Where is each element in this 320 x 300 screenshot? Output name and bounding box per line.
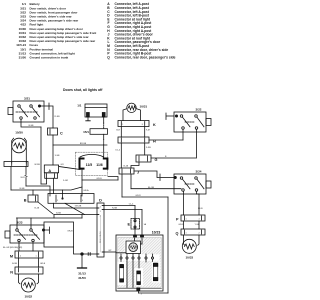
svg-text:3: 3 xyxy=(57,200,58,202)
connector G xyxy=(136,155,158,162)
in-line connector row (left B-post) xyxy=(48,194,94,204)
wire H to connector J (left leg) xyxy=(115,143,121,168)
svg-text:Doors shut, all lights off: Doors shut, all lights off xyxy=(63,88,103,92)
wire battery bus to fuse box xyxy=(53,143,107,157)
svg-text:1: 1 xyxy=(186,233,187,235)
svg-text:3/21: 3/21 xyxy=(24,97,30,101)
wire H to G xyxy=(145,143,152,155)
svg-text:M: M xyxy=(10,255,13,259)
connector E at roof light xyxy=(127,219,146,230)
svg-text:R-SB: R-SB xyxy=(112,208,118,210)
wire 3/22 right output down to G xyxy=(196,129,198,158)
svg-text:GR-B: GR-B xyxy=(178,224,184,226)
svg-text:9-SB: 9-SB xyxy=(146,147,151,149)
wire 3/21 output to terminal tick xyxy=(41,103,61,128)
svg-text:31/50: 31/50 xyxy=(78,276,86,280)
svg-text:D: D xyxy=(99,199,102,203)
connector B xyxy=(24,190,38,203)
svg-text:10/31: 10/31 xyxy=(140,105,148,109)
svg-text:BL/B: BL/B xyxy=(198,208,203,210)
wire 3/24 outputs to connector P xyxy=(184,191,204,215)
svg-text:GR-B: GR-B xyxy=(67,231,73,233)
svg-text:GR-B: GR-B xyxy=(40,263,46,265)
lamp 10/33 xyxy=(182,235,199,260)
svg-text:3/22: 3/22 xyxy=(196,108,202,112)
svg-text:4: 4 xyxy=(82,200,83,202)
svg-text:C: C xyxy=(60,132,63,136)
svg-text:GR-R: GR-R xyxy=(135,195,141,197)
wires M to N xyxy=(12,258,46,267)
svg-text:B-R: B-R xyxy=(116,130,120,132)
svg-text:W-SB: W-SB xyxy=(34,164,40,166)
wire 3/21 lamp feed (left leg, via jog) xyxy=(21,119,47,184)
connector C xyxy=(48,128,64,136)
connector H xyxy=(118,137,156,144)
svg-text:B-SB: B-SB xyxy=(20,188,25,190)
svg-text:4: 4 xyxy=(141,294,142,296)
connector Q xyxy=(176,229,205,236)
svg-text:GR-SB: GR-SB xyxy=(75,206,82,208)
wire connector J right pin to door switch 3/24 xyxy=(131,174,181,189)
connector K xyxy=(118,121,156,128)
wire A to in-line connector row xyxy=(53,178,55,193)
svg-text:B-1B: B-1B xyxy=(35,208,40,210)
svg-text:B-SB: B-SB xyxy=(12,263,17,265)
positive terminal 15/1 xyxy=(83,129,107,145)
svg-text:1: 1 xyxy=(100,211,101,213)
svg-text:2: 2 xyxy=(100,207,101,209)
connector D (left B-post strip) xyxy=(97,199,104,258)
wire K to H right xyxy=(145,127,150,138)
roof unit switch contact row xyxy=(120,254,154,260)
wire fuse output x82 down to connector row xyxy=(82,170,89,197)
door switch 3/23 xyxy=(5,221,50,244)
door switch 3/24 xyxy=(174,170,211,195)
roof unit delay element right xyxy=(153,263,157,281)
svg-text:9-M: 9-M xyxy=(146,130,150,132)
wire bus to door switch 3/23 xyxy=(17,215,83,229)
wire connector row diagonal to D (lower) xyxy=(54,203,97,214)
svg-text:Q: Q xyxy=(176,232,179,236)
door switch 3/22 xyxy=(166,108,211,133)
door switch 3/21 xyxy=(8,97,44,123)
roof light unit 10/23 xyxy=(116,231,163,292)
connector J xyxy=(119,166,139,175)
wire H to door switch 3/22 xyxy=(149,139,183,141)
svg-text:A: A xyxy=(48,169,51,173)
svg-text:Y-SB: Y-SB xyxy=(195,224,200,226)
svg-text:8: 8 xyxy=(142,124,143,126)
svg-text:1/1: 1/1 xyxy=(77,104,82,108)
svg-text:10/33: 10/33 xyxy=(185,256,193,260)
svg-text:Ground connection in trunk: Ground connection in trunk xyxy=(30,56,69,60)
roof light bulb inside unit xyxy=(116,238,142,254)
wire D to roof unit pin (right) xyxy=(104,208,142,235)
roof unit delay element left xyxy=(120,265,124,283)
svg-text:3/24: 3/24 xyxy=(196,170,202,174)
wire connector J left pin to roof unit return (long right loop) xyxy=(122,174,168,293)
connector P xyxy=(176,215,205,222)
wire connector row to D (upper) xyxy=(54,203,98,208)
courtesy lamp 10/30 xyxy=(12,131,27,164)
svg-text:10/32: 10/32 xyxy=(24,295,32,299)
svg-text:2: 2 xyxy=(199,233,200,235)
svg-text:3/23: 3/23 xyxy=(17,221,23,225)
svg-text:B: B xyxy=(24,199,27,203)
svg-text:15/1: 15/1 xyxy=(83,130,89,134)
svg-text:31/13 31/50: 31/13 31/50 xyxy=(100,231,102,243)
wire K to H left xyxy=(116,127,121,138)
svg-text:GR-B: GR-B xyxy=(96,178,102,180)
svg-text:R-SB: R-SB xyxy=(55,116,61,118)
wire C to A xyxy=(53,135,60,165)
roof unit hatched interior xyxy=(118,238,162,288)
svg-text:11/5: 11/5 xyxy=(86,163,93,167)
connector N xyxy=(10,267,43,275)
svg-text:BR-SB: BR-SB xyxy=(80,143,87,145)
wire loop rectangle at left B-post xyxy=(44,222,81,254)
connector at lamp 10/30 xyxy=(4,162,28,167)
svg-text:Connector, rear door, passenge: Connector, rear door, passenger’s side xyxy=(115,55,176,59)
wire D to roof unit pin (left) xyxy=(104,204,135,235)
legend right column xyxy=(107,2,176,59)
svg-text:11/6: 11/6 xyxy=(96,163,103,167)
fuse 11/5 xyxy=(80,159,93,169)
wires P to Q xyxy=(178,221,200,229)
svg-text:1: 1 xyxy=(122,124,123,126)
svg-text:B-SB: B-SB xyxy=(29,125,34,127)
svg-text:Q: Q xyxy=(107,55,110,59)
svg-text:B-1B: B-1B xyxy=(124,166,129,168)
svg-text:BL-SB: BL-SB xyxy=(148,187,155,189)
svg-text:1: 1 xyxy=(186,219,187,221)
wire 3/22 left output down to H xyxy=(182,129,184,140)
svg-text:N: N xyxy=(10,271,13,275)
svg-text:Door-open warning lamp passeng: Door-open warning lamp passenger’s side … xyxy=(30,39,96,43)
svg-text:9-SB: 9-SB xyxy=(55,155,60,157)
lamp 10/32 xyxy=(19,274,39,299)
wire lamp 10/30 right lead with break xyxy=(20,167,50,197)
wire fuse 11/6 output hook xyxy=(82,177,118,181)
fuse 11/6 xyxy=(96,159,107,169)
roof unit delay element center xyxy=(137,271,141,285)
wire lamp 10/30 left lead down to bus xyxy=(11,167,82,200)
svg-text:GR: GR xyxy=(61,164,65,166)
connector M xyxy=(10,251,43,259)
svg-text:9-GR: 9-GR xyxy=(63,180,68,182)
wires 3/23 to connector M xyxy=(19,242,33,251)
svg-text:W-R: W-R xyxy=(20,177,25,179)
svg-text:GR-A: GR-A xyxy=(83,189,89,192)
ground junction and ground 31/13 31/50 xyxy=(78,253,98,280)
svg-text:31/50: 31/50 xyxy=(19,56,27,60)
svg-text:G: G xyxy=(155,158,158,162)
wire fuse 11/5 diagonal output to A xyxy=(59,167,80,183)
roof unit internal wires xyxy=(121,259,153,287)
roof lamp 10/31 xyxy=(123,103,147,120)
legend left column xyxy=(16,2,96,59)
battery 1/1 xyxy=(77,104,107,129)
wire J to door switch 3/24 with terminal tick xyxy=(134,171,176,181)
svg-text:K: K xyxy=(153,123,156,127)
wire G to connector J xyxy=(131,162,139,168)
svg-text:4: 4 xyxy=(199,219,200,221)
wire G to door switch 3/22 xyxy=(151,156,196,158)
svg-text:10/30: 10/30 xyxy=(15,131,23,135)
wire D to roof unit feed BP xyxy=(104,250,116,252)
wire B diagonal to connector D row xyxy=(35,202,54,214)
connector A xyxy=(44,164,64,179)
svg-text:1: 1 xyxy=(36,256,37,258)
svg-text:10/23: 10/23 xyxy=(152,231,161,235)
svg-text:4: 4 xyxy=(20,256,21,258)
svg-text:B-SB: B-SB xyxy=(56,213,61,215)
fuse box 11/5-24 (central electrical unit) xyxy=(75,152,107,175)
svg-text:BL-GR (BR-SB)(GR): BL-GR (BR-SB)(GR) xyxy=(3,247,22,249)
